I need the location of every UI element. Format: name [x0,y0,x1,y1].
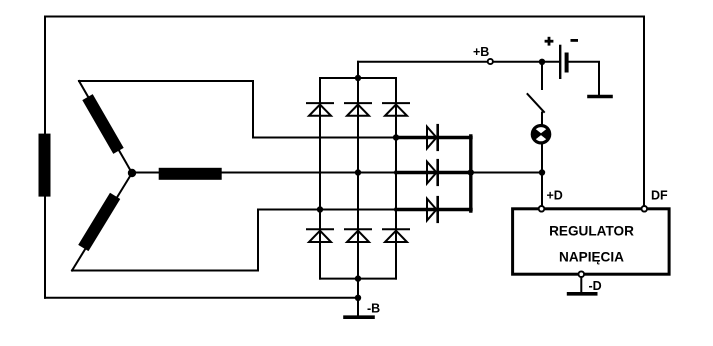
wire switch feed [541,62,543,89]
diode D2- (col2 bottom) [345,229,371,242]
junction +D node [539,169,545,175]
wire field-diode cathode bar vertical [469,136,472,211]
switch S1 blade [528,94,545,112]
wire DF vertical [643,17,645,209]
wire left vertical upper [44,17,46,135]
junction bottom return at -B [355,295,361,301]
diode D1- (col1 bottom) [307,229,333,242]
stator winding W1 bar [82,94,123,154]
wire lamp top [541,113,543,125]
wire field-diode row 1 (heavy) [396,136,471,139]
stator winding W3 bar [78,193,120,251]
ground battery [589,95,611,99]
svg-text:-B: -B [367,302,380,316]
svg-text:REGULATOR: REGULATOR [549,224,634,239]
stator winding W1 lead (up-left) [79,81,132,173]
junction top bus [355,75,361,81]
terminal +B [488,59,493,64]
battery B1 plate - [565,55,569,71]
wire diode output to +D node [471,172,542,174]
terminal DF [642,206,648,212]
label + [545,37,554,46]
diode D2+ (col2 top) [345,103,371,116]
diode DF1 [427,125,438,150]
junction phase3/column1 [317,206,323,212]
diode DF2 [427,160,438,185]
wire top (DF feed to rotor) [45,16,644,18]
wire -D drop [580,277,582,292]
ground -D [569,292,596,296]
wire +B line [358,61,559,63]
stator winding W3 lead (down-left) [72,173,132,271]
wire bottom bus [320,278,396,280]
wire phase3 horizontal bottom [72,270,258,272]
ground -B [345,315,373,319]
lamp L1 [530,124,553,145]
wire field-diode row 2 (heavy) [396,171,471,174]
battery B1 plate + [559,46,561,78]
wire bottom return to -B [45,297,358,299]
wire lamp to +D node [541,144,543,173]
junction field-diode output [468,169,474,175]
wire battery to ground [567,62,599,97]
svg-text:-D: -D [589,279,602,293]
regulator U1 box [513,209,670,274]
wire riser to +B [357,62,359,78]
terminal -D [579,271,585,277]
diode D1+ (col1 top) [307,103,333,116]
junction bottom bus [355,275,361,281]
wire phase1 to bridge [253,137,396,139]
junction phase2/column2 [355,169,361,175]
wire -B drop [357,279,359,317]
wire phase3 riser up [257,210,259,271]
svg-text:+B: +B [473,45,489,59]
diode D3+ (col3 top) [383,103,409,116]
wire field-diode row 3 (heavy) [396,208,471,211]
label - [571,39,579,42]
node star point [128,169,136,177]
wire +D drop to regulator [541,173,543,209]
stator winding W2 bar [159,168,222,180]
wire top bus [320,77,396,79]
junction battery tap [539,59,545,65]
bridge column 1 [319,78,321,279]
svg-text:DF: DF [651,188,668,202]
junction phase1/column3 [393,134,399,140]
diode DF3 [427,197,438,222]
bridge column 2 [357,78,359,279]
rotor field winding [39,134,51,197]
wire phase1 horizontal top [79,80,253,82]
svg-text:+D: +D [547,188,563,202]
diode D3- (col3 bottom) [383,229,409,242]
bridge column 3 [395,78,397,279]
stator winding W2 lead (right) [132,172,396,174]
svg-text:NAPIĘCIA: NAPIĘCIA [559,250,624,265]
wire phase1 riser down [252,81,254,138]
wire phase3 to bridge [258,209,396,211]
terminal +D [539,206,545,212]
wire left vertical lower [44,197,46,298]
